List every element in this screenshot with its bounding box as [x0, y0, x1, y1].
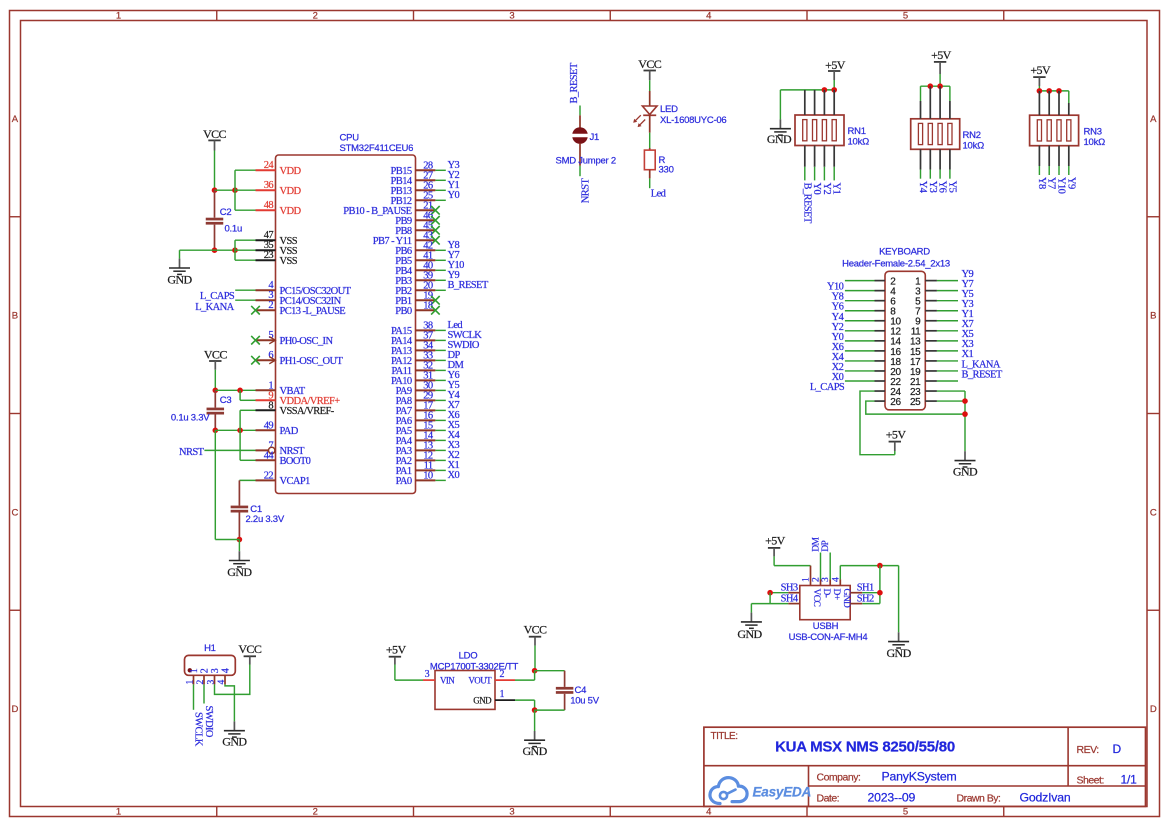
wire X1	[937, 360, 958, 362]
wire +5V stem	[939, 62, 941, 86]
svg-text:D: D	[1113, 742, 1122, 756]
wire net SWCLK	[435, 339, 445, 341]
net label Y7	[962, 279, 974, 290]
CPU pin 36 VDD	[256, 180, 302, 197]
connector KEYBOARD label	[879, 247, 930, 258]
svg-text:USBH: USBH	[813, 621, 839, 632]
svg-text:KEYBOARD: KEYBOARD	[879, 247, 930, 258]
net label X5	[962, 329, 974, 340]
connector KEYBOARD body	[885, 271, 925, 410]
net label X0	[448, 470, 460, 481]
CPU pin 30 PA9	[396, 380, 436, 397]
svg-text:44: 44	[264, 450, 275, 461]
wire VOUT to VCC	[515, 671, 535, 680]
KEYBOARD pins 18/17	[875, 357, 937, 368]
net label Y10	[448, 260, 465, 271]
wire net Y7	[435, 259, 445, 261]
net label B_RESET (vertical)	[569, 62, 580, 103]
svg-text:VCC: VCC	[204, 348, 227, 362]
svg-text:DP: DP	[821, 541, 831, 552]
wire SH4 to GND	[751, 604, 788, 613]
svg-text:PB0: PB0	[395, 306, 412, 317]
net label Y0	[832, 332, 844, 343]
wire Y7	[937, 290, 958, 292]
wire VSSA-BOOT0 bus	[239, 410, 241, 460]
CPU pin 22 VCAP1	[256, 470, 311, 487]
net label NRST	[179, 447, 205, 458]
CPU pin 31 PA10	[391, 370, 435, 387]
CPU pin 42 PB6	[395, 240, 435, 257]
svg-text:1: 1	[116, 10, 121, 21]
label LED	[660, 104, 678, 115]
value 0.1u 3.3V	[171, 412, 210, 423]
wire net X0	[435, 479, 445, 481]
svg-text:Sheet:: Sheet:	[1077, 774, 1104, 786]
no-connect flag pin 21	[431, 206, 440, 215]
LED XL-1608UYC-06	[633, 91, 657, 133]
connector H1 body	[185, 655, 236, 675]
USB pin SH2	[850, 593, 874, 604]
wire SWDIO	[203, 684, 205, 703]
capacitor C3	[207, 390, 225, 430]
ground (H1)	[222, 721, 247, 748]
RN1 bottom leads	[805, 146, 834, 181]
svg-text:10kΩ: 10kΩ	[963, 140, 985, 151]
net label X2	[448, 450, 460, 461]
wire RN3 top bus	[1039, 90, 1068, 92]
ground (below C2)	[167, 259, 192, 287]
label REV:	[1077, 744, 1099, 756]
svg-text:+5V: +5V	[1030, 63, 1051, 77]
svg-text:4: 4	[706, 10, 711, 21]
resistor R 330	[644, 148, 655, 178]
svg-text:Y0: Y0	[448, 190, 460, 201]
wire X2	[845, 370, 875, 372]
power VCC (LED)	[638, 57, 661, 71]
value 0.1u	[225, 224, 243, 235]
svg-text:H1: H1	[204, 643, 216, 654]
wire X3	[937, 350, 958, 352]
net label Y7 (vertical)	[1046, 177, 1057, 189]
net label X6	[448, 410, 460, 421]
label RN1	[848, 126, 866, 137]
svg-text:VCC: VCC	[203, 127, 226, 141]
wire RN1 top bus	[780, 89, 834, 91]
label C2	[220, 207, 232, 218]
svg-text:PAD: PAD	[280, 426, 299, 437]
svg-text:USB-CON-AF-MH4: USB-CON-AF-MH4	[789, 632, 868, 643]
svg-text:+5V: +5V	[931, 48, 952, 62]
wire +5V stem	[1038, 77, 1040, 91]
junction	[1037, 88, 1043, 94]
svg-text:C: C	[1150, 507, 1157, 518]
value 1/1	[1121, 772, 1138, 786]
wire VCC to LED	[649, 71, 651, 92]
value 10kΩ (RN2)	[963, 140, 985, 151]
wire C2 to VSS bus	[215, 249, 236, 251]
wire pin4 to GND	[840, 566, 898, 633]
H1 pin number 3 (inside)	[210, 668, 221, 673]
connector KEYBOARD value	[842, 258, 950, 269]
CPU pin 16 PA6	[396, 410, 436, 427]
svg-text:Y4: Y4	[917, 181, 928, 194]
USB pin name D+ (vertical)	[831, 589, 841, 600]
net label Y4	[448, 390, 461, 401]
svg-text:VCC: VCC	[238, 642, 261, 656]
svg-text:A: A	[12, 114, 19, 125]
wire SH tie vertical	[879, 566, 881, 604]
power VCC (mid-left)	[204, 348, 227, 362]
wire B_RESET	[937, 380, 958, 382]
svg-text:REV:: REV:	[1077, 744, 1099, 756]
CPU pin 15 PA5	[396, 420, 436, 437]
wire net X1	[435, 469, 445, 471]
svg-text:CPU: CPU	[340, 133, 360, 144]
CPU pin 7 NRST	[256, 440, 306, 457]
value 10u 5V	[570, 695, 600, 706]
svg-text:2: 2	[199, 668, 210, 673]
value 2023--09	[868, 790, 916, 804]
net label Y8	[448, 240, 460, 251]
net label B_RESET	[962, 369, 1003, 380]
wire SWCLK	[193, 684, 195, 709]
CPU pin 29 PA8	[396, 390, 436, 407]
svg-text:L_CAPS: L_CAPS	[810, 382, 845, 393]
svg-text:VSS: VSS	[280, 256, 298, 267]
net label Y2 (vertical)	[821, 183, 832, 195]
wire to pin 24	[235, 169, 256, 171]
svg-text:C: C	[11, 507, 18, 518]
KEYBOARD pins 8/7	[875, 307, 937, 318]
junction	[232, 187, 238, 193]
label H1	[204, 643, 216, 654]
wire Led net	[649, 178, 651, 188]
svg-text:LED: LED	[660, 104, 678, 115]
svg-text:2: 2	[500, 669, 505, 680]
RN1 top leads	[805, 90, 834, 115]
wire to VDDA	[240, 390, 255, 400]
svg-text:LDO: LDO	[459, 651, 478, 662]
svg-text:49: 49	[264, 420, 274, 431]
USB pin 2 lead	[812, 577, 822, 586]
label C3	[220, 395, 232, 406]
svg-text:Header-Female-2.54_2x13: Header-Female-2.54_2x13	[842, 258, 950, 269]
value 10kΩ (RN1)	[848, 136, 870, 147]
value MCP1700T-3302E/TT	[430, 661, 519, 672]
wire NRST	[204, 449, 255, 451]
wire PAD row	[215, 429, 255, 431]
H1 pin number 4 (inside)	[220, 668, 231, 673]
junction	[232, 247, 238, 253]
ground (USB left)	[737, 613, 762, 641]
svg-text:Y3: Y3	[927, 181, 938, 193]
svg-text:Y10: Y10	[1056, 177, 1067, 194]
net label Y10	[827, 282, 844, 293]
net label Y3	[448, 160, 460, 171]
EasyEDA logo	[710, 778, 811, 804]
svg-text:SH4: SH4	[781, 593, 799, 604]
net label Led	[651, 189, 667, 200]
junction	[213, 388, 219, 394]
junction	[877, 563, 883, 569]
svg-text:VCC: VCC	[638, 57, 661, 71]
net label X6	[832, 342, 844, 353]
svg-text:L_CAPS: L_CAPS	[200, 291, 235, 302]
svg-text:J1: J1	[590, 132, 600, 143]
net label X4	[832, 352, 845, 363]
net label SWDIO (vertical)	[203, 706, 214, 738]
svg-text:B: B	[1150, 311, 1156, 322]
svg-text:1: 1	[116, 807, 121, 818]
svg-text:Y6: Y6	[937, 181, 948, 193]
value PanyKSystem	[882, 769, 957, 783]
value USB-CON-AF-MH4	[789, 632, 868, 643]
wire PC14	[235, 299, 255, 301]
svg-text:X0: X0	[448, 470, 460, 481]
CPU pin 20 PB2	[395, 280, 435, 297]
wire to VIN	[395, 679, 423, 681]
net label Y0	[448, 190, 460, 201]
wire RN2 top bus	[921, 85, 950, 87]
CPU body STM32F411CEU6	[276, 155, 416, 494]
svg-text:GND: GND	[886, 646, 911, 660]
svg-text:GND: GND	[953, 464, 978, 478]
CPU pin 38 PA15	[391, 320, 435, 337]
svg-text:Y2: Y2	[821, 183, 832, 195]
label C1	[250, 504, 262, 515]
KEYBOARD pins 12/11	[875, 327, 937, 338]
net label Y2	[832, 322, 844, 333]
CPU pin 37 PA14	[391, 330, 435, 347]
wire VBAT row	[215, 389, 255, 391]
CPU pin 5 PH0-OSC_IN	[251, 330, 333, 347]
wire net Y8	[435, 249, 445, 251]
svg-text:SWDIO: SWDIO	[203, 706, 214, 738]
svg-text:Drawn By:: Drawn By:	[957, 792, 1001, 804]
net label Y8	[832, 292, 844, 303]
net label DP	[448, 350, 461, 361]
svg-text:Y0: Y0	[811, 183, 822, 195]
wire VCC stem	[534, 637, 536, 671]
no-connect flag pin 43	[431, 236, 440, 245]
net label Y4 (vertical)	[917, 181, 928, 194]
net label X0	[832, 372, 844, 383]
wire SH2	[862, 603, 880, 605]
svg-text:10kΩ: 10kΩ	[1084, 137, 1106, 148]
net label Y5 (vertical)	[946, 181, 957, 193]
svg-text:2023--09: 2023--09	[868, 790, 916, 804]
junction	[877, 590, 883, 596]
svg-text:C3: C3	[220, 395, 232, 406]
wire NRST at J1	[579, 166, 581, 176]
net label SWDIO	[448, 340, 480, 351]
ground (LDO)	[522, 731, 547, 758]
label RN2	[963, 130, 981, 141]
wire Y4	[845, 320, 875, 322]
net label Y9	[448, 270, 460, 281]
CPU pin 13 PA3	[396, 440, 436, 457]
svg-text:8: 8	[268, 400, 273, 411]
svg-text:6: 6	[268, 350, 273, 361]
CPU pin 10 PA0	[396, 470, 436, 487]
svg-text:SH1: SH1	[857, 582, 874, 593]
label Date:	[817, 792, 840, 804]
wire net DM	[435, 369, 445, 371]
junction	[962, 398, 968, 404]
wire net Y3	[435, 169, 445, 171]
value 2.2u 3.3V	[246, 514, 285, 525]
net label DM	[448, 360, 465, 371]
RN3 bottom leads	[1039, 146, 1068, 175]
USB pin name GND (vertical)	[841, 589, 851, 609]
wire net Y6	[435, 379, 445, 381]
capacitor C1	[231, 480, 249, 539]
wire VCC to VDD bus	[215, 189, 236, 191]
svg-text:NRST: NRST	[580, 178, 591, 204]
net label Y1 (vertical)	[831, 183, 842, 195]
wire SH1	[862, 592, 880, 594]
wire +5V stem	[394, 657, 396, 680]
svg-text:GND: GND	[841, 589, 851, 609]
junction	[237, 388, 243, 394]
svg-text:10kΩ: 10kΩ	[848, 136, 870, 147]
svg-text:VCAP1: VCAP1	[280, 476, 311, 487]
wire X6	[845, 350, 875, 352]
svg-text:GND: GND	[167, 273, 192, 287]
svg-text:SWCLK: SWCLK	[193, 712, 204, 747]
svg-text:+5V: +5V	[386, 643, 407, 657]
CPU pin 43 PB7 - Y11	[373, 230, 436, 247]
wire pin24 to +5V	[860, 391, 895, 455]
net label X3	[962, 339, 974, 350]
net label DP (vertical)	[821, 541, 831, 552]
svg-text:10u 5V: 10u 5V	[570, 695, 600, 706]
svg-text:+5V: +5V	[886, 427, 907, 441]
svg-text:XL-1608UYC-06: XL-1608UYC-06	[660, 115, 726, 126]
capacitor C4	[556, 671, 574, 710]
USB pin 1 lead	[802, 566, 812, 586]
net label Y6	[832, 302, 844, 313]
wire pin4 to GND	[225, 684, 234, 721]
no-connect flag pin 45	[431, 226, 440, 235]
label C4	[575, 685, 587, 696]
KEYBOARD pins 10/9	[875, 317, 937, 328]
svg-text:GND: GND	[767, 132, 792, 146]
svg-text:VDD: VDD	[280, 206, 302, 217]
power +5V (keyboard)	[886, 427, 907, 441]
label Sheet:	[1077, 774, 1104, 786]
svg-text:Y8: Y8	[1036, 177, 1047, 189]
net label SWCLK (vertical)	[193, 712, 204, 747]
wire net X3	[435, 449, 445, 451]
power +5V (RN1)	[825, 58, 846, 72]
svg-text:0.1u: 0.1u	[225, 224, 243, 235]
svg-text:D-: D-	[821, 589, 831, 598]
svg-text:26: 26	[890, 397, 901, 408]
CPU pin 24 VDD	[256, 160, 302, 177]
net label X2	[832, 362, 844, 373]
net label L_CAPS	[810, 382, 845, 393]
wire DP	[829, 553, 831, 580]
wire to GND	[238, 540, 240, 552]
wire net X5	[435, 429, 445, 431]
svg-text:PH1-OSC_OUT: PH1-OSC_OUT	[280, 356, 344, 367]
svg-text:C2: C2	[220, 207, 232, 218]
wire net SWDIO	[435, 349, 445, 351]
svg-text:Y7: Y7	[1046, 177, 1057, 189]
svg-text:VSSA/VREF-: VSSA/VREF-	[280, 406, 335, 417]
power VCC (LDO)	[524, 623, 547, 637]
power +5V (USB)	[765, 534, 786, 548]
wire net X6	[435, 419, 445, 421]
net label Y0 (vertical)	[811, 183, 822, 195]
wire Y3	[937, 310, 958, 312]
svg-text:DM: DM	[812, 537, 822, 552]
CPU pin 32 PA11	[391, 360, 435, 377]
wire net DP	[435, 359, 445, 361]
CPU pin 47 VSS	[256, 230, 298, 247]
junction	[822, 87, 828, 93]
CPU pin 41 PB5	[395, 250, 435, 267]
USB pin name VCC (vertical)	[811, 589, 821, 607]
ground (keyboard)	[953, 451, 978, 478]
CPU pin 49 PAD	[256, 420, 299, 437]
net label L_KANA	[962, 359, 1001, 370]
svg-text:4: 4	[706, 807, 711, 818]
LDO pin 3 VIN	[423, 669, 455, 685]
wire Y6	[845, 310, 875, 312]
svg-text:+5V: +5V	[765, 534, 786, 548]
no-connect flag pin 19	[431, 296, 440, 305]
svg-text:GND: GND	[227, 565, 252, 579]
net label X1	[448, 460, 460, 471]
CPU pin 6 PH1-OSC_OUT	[251, 350, 343, 367]
svg-text:SMD Jumper 2: SMD Jumper 2	[556, 156, 616, 167]
svg-text:5: 5	[903, 807, 908, 818]
net label X7	[962, 319, 974, 330]
svg-text:VOUT: VOUT	[468, 675, 492, 685]
wire to GND	[180, 250, 215, 258]
CPU pin 44 BOOT0	[256, 450, 311, 467]
CPU pin 19 PB1	[395, 290, 435, 307]
svg-text:3: 3	[210, 668, 221, 673]
net label L_CAPS	[200, 291, 235, 302]
wire Y5	[937, 300, 958, 302]
power +5V (RN2)	[931, 48, 952, 62]
CPU pin 48 VDD	[256, 200, 302, 217]
wire row2	[845, 280, 875, 282]
svg-text:Y9: Y9	[1065, 177, 1076, 189]
label SMD Jumper 2	[556, 156, 616, 167]
net label Y5	[962, 289, 974, 300]
svg-text:SH2: SH2	[857, 593, 874, 604]
CPU pin 35 VSS	[256, 240, 298, 257]
CPU pin 9 VDDA/VREF+	[256, 390, 341, 407]
svg-text:2.2u 3.3V: 2.2u 3.3V	[246, 514, 285, 525]
svg-text:23: 23	[264, 250, 274, 261]
svg-text:D: D	[11, 704, 18, 715]
svg-text:B_RESET: B_RESET	[569, 62, 580, 103]
net label Y3	[962, 299, 974, 310]
net label SWCLK	[448, 330, 483, 341]
wire +5V to pin1	[774, 565, 810, 567]
CPU pin 26 PB13	[391, 180, 436, 197]
no-connect flag pin 18	[431, 306, 440, 315]
CPU pin 46 PB9	[395, 210, 435, 227]
wire GND pin to node	[515, 700, 535, 710]
wire LED to R	[649, 133, 651, 148]
wire RN1 to GND	[779, 90, 781, 120]
